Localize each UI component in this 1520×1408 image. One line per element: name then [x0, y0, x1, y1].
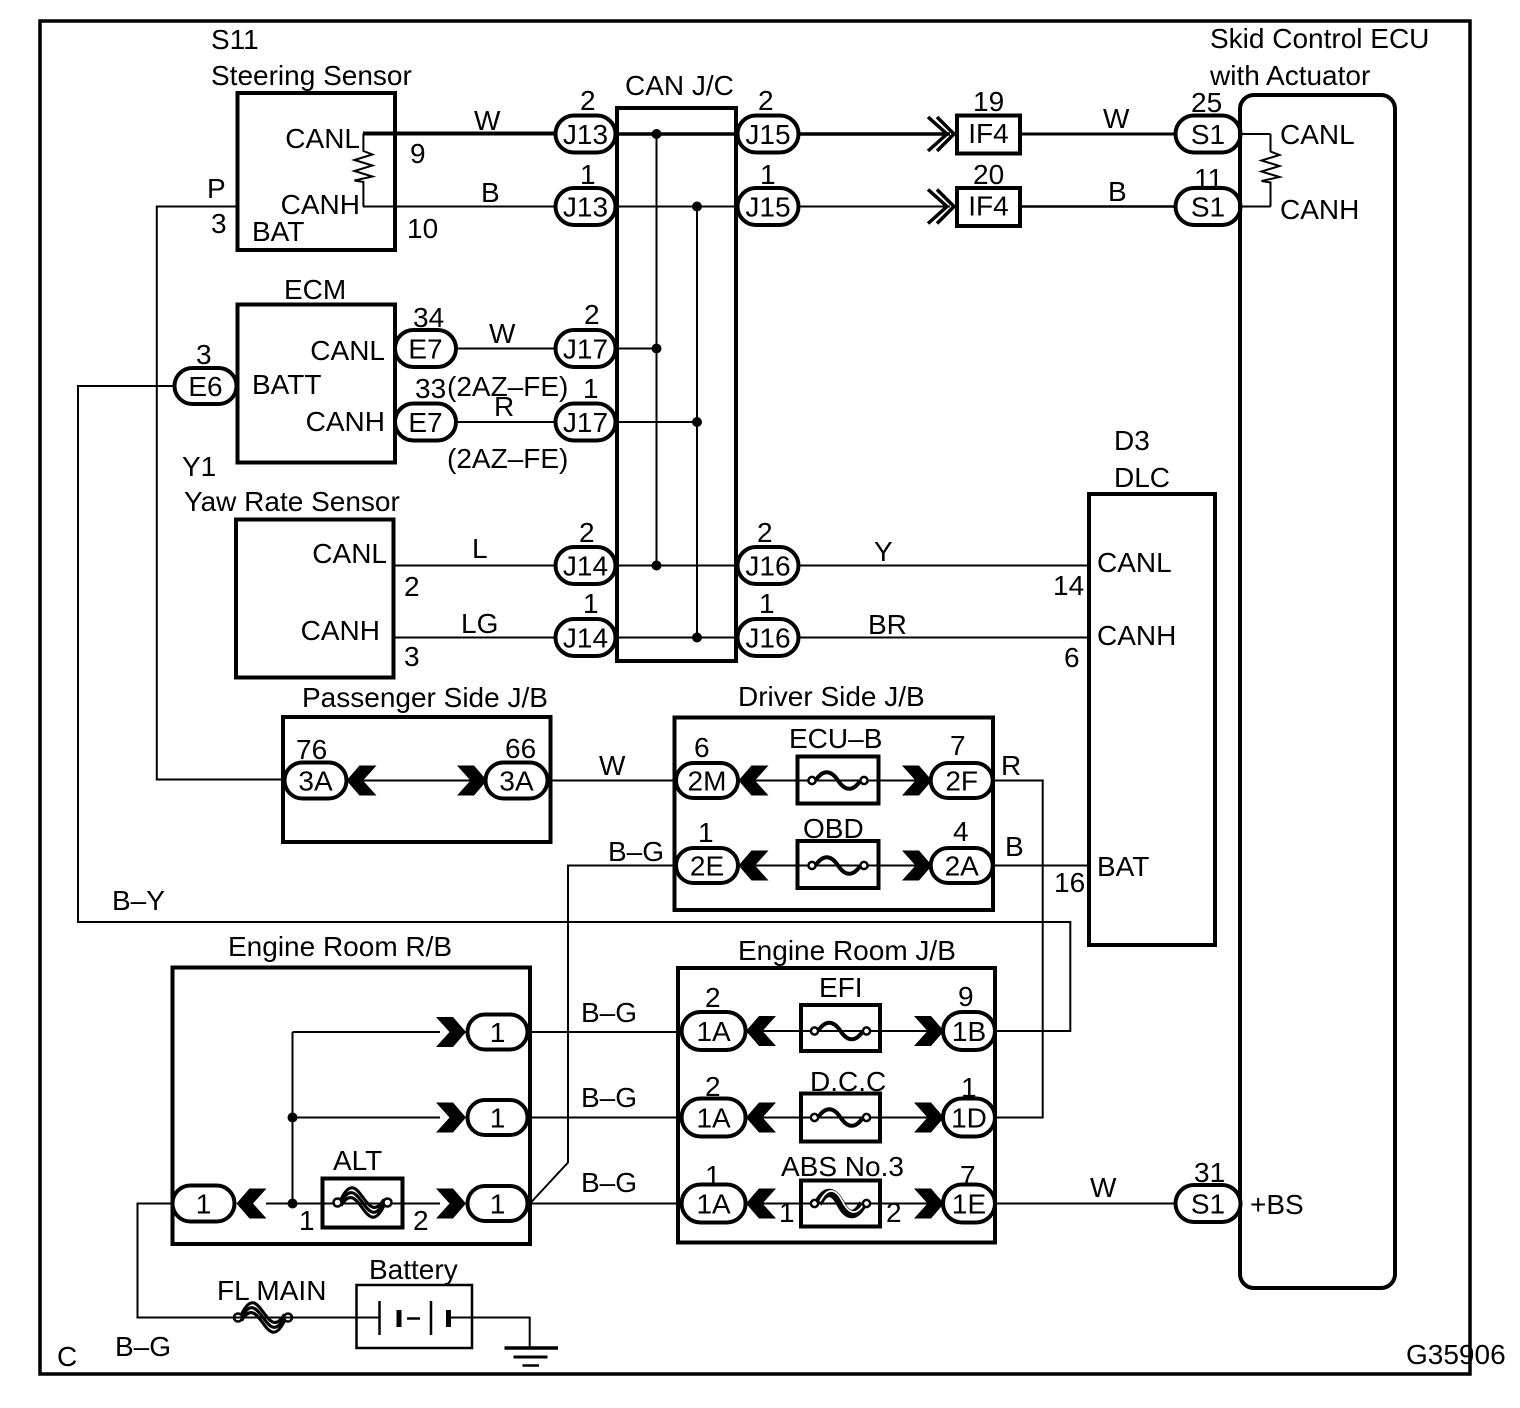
svg-text:D3: D3	[1114, 425, 1150, 456]
svg-text:W: W	[1103, 103, 1130, 134]
connector J16 pin 1	[738, 588, 799, 656]
fuse EFI	[801, 972, 880, 1051]
svg-text:2: 2	[404, 571, 420, 602]
svg-text:CANH: CANH	[1097, 620, 1176, 651]
svg-text:7: 7	[950, 730, 966, 761]
svg-text:1: 1	[583, 588, 599, 619]
wire BR J16 to DLC CANH pin 6	[799, 637, 1090, 639]
connector block ECM	[238, 274, 396, 463]
svg-text:W: W	[474, 105, 501, 136]
svg-text:2: 2	[579, 517, 595, 548]
svg-text:2: 2	[758, 85, 774, 116]
connector J14 pin 2	[556, 517, 616, 584]
connector J15 pin 2	[738, 85, 799, 153]
wire R E7 to J17 pin 1	[456, 421, 556, 423]
svg-text:CAN J/C: CAN J/C	[625, 70, 734, 101]
svg-text:J16: J16	[745, 623, 790, 654]
connector 1D pin 1	[943, 1072, 995, 1137]
connector 1A pin 2 (EFI row)	[682, 982, 746, 1050]
wire internal row 2 Engine Room R/B	[293, 1117, 441, 1119]
sensor block Y1 Yaw Rate Sensor	[182, 451, 420, 678]
svg-text:J13: J13	[563, 192, 608, 223]
svg-text:BATT: BATT	[252, 369, 321, 400]
svg-text:S11: S11	[211, 24, 259, 55]
fuse ECU-B	[789, 723, 882, 804]
svg-text:R: R	[1001, 750, 1021, 781]
svg-text:CANH: CANH	[306, 406, 385, 437]
svg-text:E7: E7	[408, 334, 442, 365]
connector 1A pin 2 (D.C.C row)	[682, 1071, 746, 1137]
svg-text:1: 1	[299, 1205, 315, 1236]
svg-text:(2AZ–FE): (2AZ–FE)	[447, 443, 568, 474]
svg-text:J14: J14	[563, 623, 608, 654]
svg-text:1A: 1A	[696, 1103, 731, 1134]
wire LG bus through CAN J/C at J14 row	[614, 637, 740, 639]
svg-text:16: 16	[1054, 867, 1085, 898]
wire B IF4 to S1 pin 11	[1020, 205, 1176, 207]
svg-text:CANH: CANH	[1280, 194, 1359, 225]
wire inside Passenger Side J/B between 3A connectors	[340, 780, 490, 782]
fusible link FL MAIN	[217, 1275, 326, 1332]
svg-text:S1: S1	[1191, 119, 1225, 150]
svg-text:with Actuator: with Actuator	[1209, 60, 1370, 91]
svg-text:Steering Sensor: Steering Sensor	[211, 60, 412, 91]
connector IF4 pin 19	[957, 86, 1020, 154]
connector 3A pin 66	[486, 733, 548, 799]
wire ABS No.3 row inside Engine Room J/B	[746, 1203, 944, 1205]
svg-text:B–G: B–G	[581, 1167, 637, 1198]
connector 2F pin 7	[931, 730, 993, 798]
wire W J15 to IF4 pin 19	[799, 132, 951, 136]
wire B 2A pin 4 to DLC BAT pin 16	[993, 865, 1089, 867]
resistor terminating inside Skid Control ECU	[1262, 134, 1280, 207]
svg-text:CANL: CANL	[312, 538, 387, 569]
wire W E7 to J17 pin 2	[456, 348, 556, 350]
wire internal feed Engine Room R/B	[293, 1031, 441, 1033]
relay block Engine Room R/B	[173, 931, 531, 1244]
svg-text:1: 1	[583, 373, 599, 404]
connector S1 pin 31 (+BS)	[1176, 1157, 1304, 1222]
svg-text:ECM: ECM	[284, 274, 346, 305]
svg-text:Battery: Battery	[369, 1254, 458, 1285]
connector 1B pin 9	[943, 981, 995, 1050]
arrow connector mate at 1A EFI	[746, 1016, 776, 1046]
svg-text:IF4: IF4	[968, 118, 1008, 149]
svg-text:ALT: ALT	[333, 1145, 382, 1176]
battery	[357, 1254, 473, 1348]
junction block Passenger Side J/B	[283, 682, 551, 842]
svg-text:ABS No.3: ABS No.3	[781, 1151, 904, 1182]
svg-text:3: 3	[404, 641, 420, 672]
connector J13 pin 2	[556, 85, 616, 153]
svg-text:19: 19	[973, 86, 1004, 117]
svg-text:CANL: CANL	[1280, 119, 1355, 150]
svg-text:Passenger Side J/B: Passenger Side J/B	[302, 682, 548, 713]
svg-text:CANL: CANL	[1097, 547, 1172, 578]
svg-text:1: 1	[779, 1197, 795, 1228]
svg-text:6: 6	[1064, 642, 1080, 673]
svg-text:3A: 3A	[499, 766, 534, 797]
svg-text:J13: J13	[563, 119, 608, 150]
connector 2E pin 1	[676, 817, 738, 883]
wire battery positive to R/B left connector via FL MAIN	[138, 1204, 235, 1318]
ECU block Skid Control ECU with Actuator	[1209, 23, 1429, 1288]
svg-text:J17: J17	[563, 407, 608, 438]
arrow connector mate at left 1	[237, 1189, 267, 1219]
fuse D.C.C	[801, 1066, 886, 1142]
svg-text:1: 1	[490, 1103, 506, 1134]
svg-text:3A: 3A	[298, 766, 333, 797]
connector 1E pin 7	[943, 1160, 995, 1223]
wire R 2F pin 7 down to Engine Room J/B 1D pin 1	[993, 781, 1043, 1118]
svg-text:Engine Room J/B: Engine Room J/B	[738, 935, 956, 966]
connector block D3 DLC	[1053, 425, 1215, 945]
svg-text:E6: E6	[188, 371, 222, 402]
junction block Engine Room J/B	[678, 935, 995, 1243]
svg-text:B: B	[1005, 831, 1024, 862]
arrow connector mate at 1D	[914, 1103, 944, 1133]
fuse ABS No.3	[779, 1151, 904, 1228]
wire CANL bus inside CAN J/C (through J13 row)	[614, 132, 740, 136]
svg-text:B–G: B–G	[115, 1331, 171, 1362]
svg-text:1A: 1A	[696, 1016, 731, 1047]
svg-text:4: 4	[953, 816, 969, 847]
wire LG Yaw CANH to J14 pin 1	[394, 637, 557, 639]
wire B J15 to IF4 pin 20	[799, 206, 951, 208]
svg-text:1: 1	[196, 1189, 212, 1220]
connector 1A pin 1 (ABS No.3 row)	[682, 1160, 746, 1223]
svg-text:2A: 2A	[945, 851, 980, 882]
connector 1 (R/B left, from battery)	[173, 1186, 235, 1222]
svg-text:25: 25	[1191, 87, 1222, 118]
wire FL MAIN to battery	[230, 1317, 380, 1319]
svg-text:IF4: IF4	[968, 191, 1008, 222]
junction block Driver Side J/B	[675, 681, 994, 910]
svg-text:B–G: B–G	[581, 997, 637, 1028]
svg-text:3: 3	[196, 339, 212, 370]
svg-text:DLC: DLC	[1114, 462, 1170, 493]
wire battery negative to ground	[449, 1318, 530, 1349]
in-line connector chevron IF4 row B	[928, 190, 954, 224]
svg-text:CANH: CANH	[301, 615, 380, 646]
connector IF4 pin 20	[957, 159, 1020, 226]
svg-text:1: 1	[698, 817, 714, 848]
svg-text:1: 1	[490, 1017, 506, 1048]
wire J17 row W stub into CAN J/C	[614, 348, 657, 350]
svg-text:Driver Side J/B: Driver Side J/B	[738, 681, 925, 712]
svg-text:BAT: BAT	[1097, 851, 1149, 882]
wire ALT to row-3 connector	[403, 1203, 441, 1205]
svg-text:G35906: G35906	[1406, 1339, 1506, 1370]
svg-text:L: L	[472, 533, 488, 564]
svg-text:B–G: B–G	[608, 836, 664, 867]
arrow connector mate row 2	[436, 1103, 466, 1133]
node junction ALT row	[288, 1199, 298, 1209]
node junction row 2	[288, 1113, 298, 1123]
connector block S11 Steering Sensor	[207, 24, 438, 250]
svg-text:CANL: CANL	[310, 335, 385, 366]
node junction CANH at J13 row	[692, 202, 702, 212]
wire stub CANH inside ECU	[1240, 206, 1271, 208]
svg-text:P: P	[207, 173, 226, 204]
arrow connector mate at 1A D.C.C	[746, 1103, 776, 1133]
connector 1 (R/B row 2, to D.C.C)	[468, 1100, 528, 1135]
node junction W bus at J17 row	[652, 344, 662, 354]
svg-text:9: 9	[958, 981, 974, 1012]
svg-text:2: 2	[584, 299, 600, 330]
svg-text:B: B	[1108, 176, 1127, 207]
fusible link ALT	[299, 1145, 429, 1236]
connector 1 (R/B row 1, to EFI)	[468, 1015, 528, 1050]
svg-text:B–Y: B–Y	[112, 885, 165, 916]
svg-text:W: W	[1090, 1172, 1117, 1203]
arrow connector mate at 2F	[902, 766, 932, 796]
arrow connector mate at 1B	[914, 1016, 944, 1046]
wire B-G R/B row1 to 1A pin 2 (EFI)	[528, 1031, 683, 1033]
svg-text:ECU–B: ECU–B	[789, 723, 882, 754]
connector J14 pin 1	[556, 588, 616, 656]
svg-text:9: 9	[410, 138, 426, 169]
connector 1 (R/B row 3, to ABS No.3)	[468, 1186, 528, 1221]
svg-text:1A: 1A	[696, 1189, 731, 1220]
svg-text:J16: J16	[745, 551, 790, 582]
connector S1 pin 25	[1176, 87, 1241, 153]
wire ECU-B fuse row inside Driver Side J/B	[738, 780, 931, 782]
arrow connector mate at 1A ABS	[746, 1189, 776, 1219]
wire B-Y ECM BATT E6 run to Engine Room J/B 1B	[78, 386, 1070, 1031]
svg-text:2: 2	[705, 982, 721, 1013]
svg-text:20: 20	[973, 159, 1004, 190]
svg-text:J14: J14	[563, 551, 608, 582]
svg-text:2E: 2E	[690, 851, 724, 882]
svg-text:W: W	[489, 318, 516, 349]
svg-text:1E: 1E	[952, 1189, 986, 1220]
svg-text:1D: 1D	[951, 1103, 987, 1134]
arrow connector mate at 2E	[739, 851, 769, 881]
svg-text:B–G: B–G	[581, 1082, 637, 1113]
svg-text:J17: J17	[563, 334, 608, 365]
svg-text:C: C	[57, 1341, 77, 1372]
arrow connector mate at 2M	[739, 766, 769, 796]
resistor inside steering sensor (terminating)	[354, 134, 372, 207]
svg-text:2: 2	[580, 85, 596, 116]
arrow connector mate at 1E	[914, 1189, 944, 1219]
svg-text:R: R	[494, 391, 514, 422]
svg-text:FL MAIN: FL MAIN	[217, 1275, 326, 1306]
connector E7 pin 33 (ECM CANH)	[395, 373, 456, 441]
svg-text:W: W	[599, 750, 626, 781]
svg-text:B: B	[481, 177, 500, 208]
wire B-G R/B row3 to 1A pin 1 (ABS No.3)	[528, 1203, 683, 1205]
arrow connector mate at 2A	[902, 851, 932, 881]
wire L bus through CAN J/C at J14 row	[614, 565, 740, 567]
svg-text:S1: S1	[1191, 1189, 1225, 1220]
svg-text:BAT: BAT	[252, 216, 304, 247]
wire OBD fuse row inside Driver Side J/B	[738, 865, 931, 867]
connector J17 pin 2	[556, 299, 616, 367]
connector 3A pin 76	[285, 734, 347, 799]
svg-text:Engine Room R/B: Engine Room R/B	[228, 931, 452, 962]
arrow connector mate at 3A pin 66	[457, 766, 487, 796]
svg-text:Y1: Y1	[182, 451, 216, 482]
svg-text:10: 10	[407, 213, 438, 244]
wire EFI row inside Engine Room J/B	[746, 1030, 944, 1032]
svg-text:J15: J15	[745, 192, 790, 223]
connector J16 pin 2	[738, 517, 799, 584]
wire Y J16 to DLC CANL pin 14	[799, 565, 1090, 567]
svg-text:+BS: +BS	[1250, 1189, 1304, 1220]
wire W S11 CANL to J13 pin 2	[363, 132, 556, 136]
wire D.C.C row inside Engine Room J/B	[746, 1117, 944, 1119]
svg-text:14: 14	[1053, 570, 1084, 601]
wire W IF4 to S1 pin 25	[1020, 133, 1176, 136]
svg-text:1: 1	[760, 159, 776, 190]
svg-text:6: 6	[694, 732, 710, 763]
svg-text:LG: LG	[461, 608, 498, 639]
node junction CANL at J13 row	[652, 129, 662, 139]
svg-text:2: 2	[886, 1197, 902, 1228]
node junction R bus at J17 row	[692, 417, 702, 427]
svg-text:Y: Y	[874, 536, 893, 567]
svg-text:EFI: EFI	[819, 972, 863, 1003]
wire B-G 2E pin 1 down to ALT row in Engine Room R/B	[530, 866, 676, 1204]
svg-text:Skid Control ECU: Skid Control ECU	[1210, 23, 1429, 54]
wire bus vertical CANL inside CAN J/C	[656, 134, 658, 566]
ground	[505, 1348, 559, 1366]
svg-text:1: 1	[580, 159, 596, 190]
svg-text:1B: 1B	[952, 1016, 986, 1047]
node junction CANH bus at J14 row	[692, 633, 702, 643]
svg-text:2: 2	[413, 1205, 429, 1236]
connector S1 pin 11	[1176, 163, 1241, 225]
wire bus vertical CANH inside CAN J/C	[696, 207, 698, 638]
wire left 1 to ALT	[266, 1203, 440, 1205]
svg-text:2F: 2F	[945, 766, 978, 797]
wire stub CANL inside ECU	[1240, 133, 1271, 135]
connector E7 pin 34 (ECM CANL)	[395, 302, 456, 367]
svg-text:2M: 2M	[688, 766, 727, 797]
wire W 1E pin 7 to S1 pin 31	[995, 1203, 1176, 1205]
in-line connector chevron IF4 row W	[928, 117, 954, 151]
arrow connector mate row 3	[436, 1189, 466, 1219]
wire CANH bus inside CAN J/C (through J13 row)	[614, 206, 740, 208]
svg-text:66: 66	[505, 733, 536, 764]
wire W 3A pin 66 to Driver Side J/B 2M pin 6	[548, 780, 677, 782]
fuse OBD	[798, 813, 879, 888]
svg-text:BR: BR	[868, 609, 907, 640]
svg-text:Yaw Rate Sensor: Yaw Rate Sensor	[184, 486, 400, 517]
svg-text:1: 1	[490, 1189, 506, 1220]
connector 2M pin 6	[676, 732, 738, 798]
svg-text:33: 33	[415, 373, 446, 404]
svg-text:76: 76	[296, 734, 327, 765]
svg-text:1: 1	[759, 588, 775, 619]
wire B S11 CANH to J13 pin 1	[363, 206, 556, 208]
svg-text:S1: S1	[1191, 192, 1225, 223]
junction block CAN J/C	[617, 70, 736, 661]
connector J17 pin 1	[556, 373, 616, 441]
svg-text:J15: J15	[745, 119, 790, 150]
wire J17 row R stub into CAN J/C	[614, 421, 697, 423]
wire P BAT of S11 down-left to Passenger Side J/B 3A pin 76	[157, 207, 285, 780]
connector 2A pin 4	[931, 816, 993, 883]
svg-text:3: 3	[211, 208, 227, 239]
connector E6 pin 3 (ECM BATT)	[175, 339, 237, 404]
svg-text:CANL: CANL	[285, 123, 360, 154]
wire B-G R/B row2 to 1A pin 2 (D.C.C)	[528, 1117, 683, 1119]
svg-text:E7: E7	[408, 407, 442, 438]
svg-text:2: 2	[757, 517, 773, 548]
connector J15 pin 1	[738, 159, 799, 225]
wire L Yaw CANL to J14 pin 2	[394, 565, 557, 567]
node junction CANL bus at J14 row	[652, 561, 662, 571]
arrow connector mate at 3A pin 76	[347, 766, 377, 796]
arrow connector mate row 1	[436, 1017, 466, 1047]
connector J13 pin 1	[556, 159, 616, 225]
